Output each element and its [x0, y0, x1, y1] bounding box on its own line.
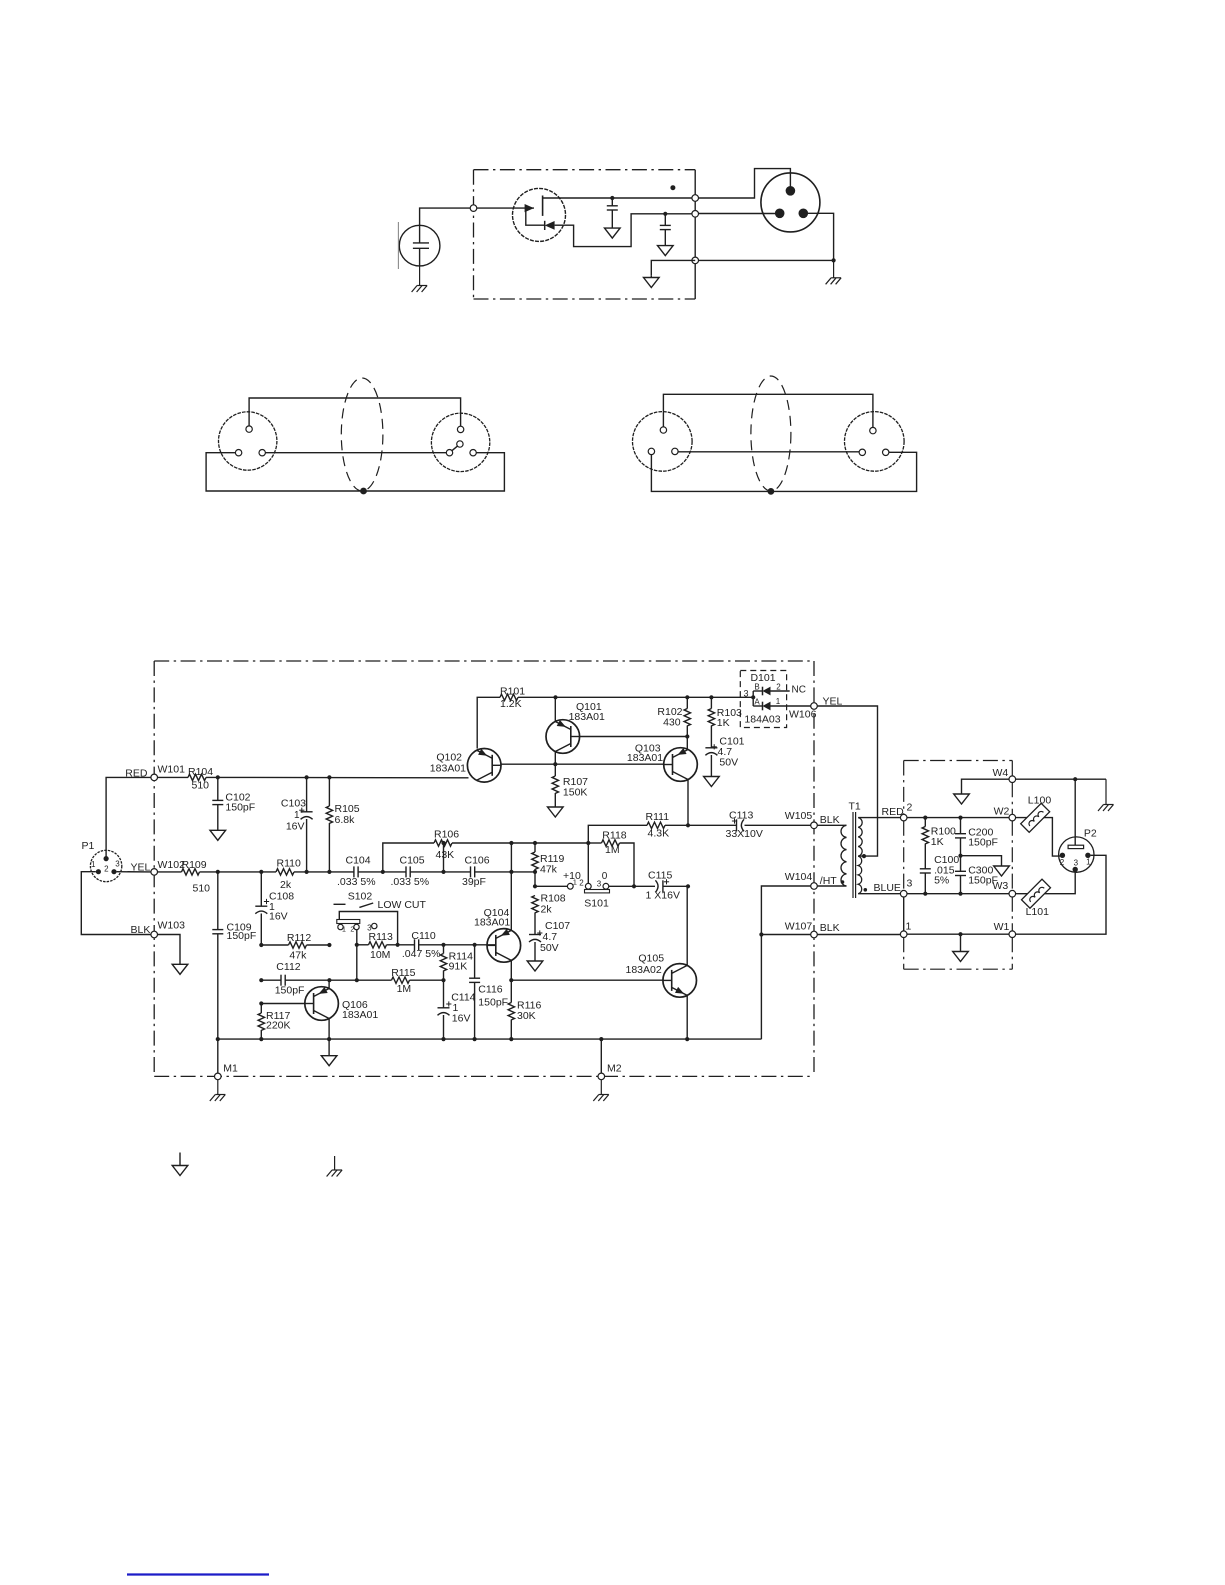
wire Q101 base to R102: [580, 734, 690, 738]
node W104: [785, 871, 838, 889]
resistor R111: [646, 811, 670, 840]
cable 2 connector B: [845, 412, 905, 472]
resistor R107: [552, 764, 588, 806]
inductor L100: [1021, 795, 1052, 833]
wire W2 row: [907, 816, 1009, 820]
svg-text:BLUE: BLUE: [874, 882, 901, 894]
svg-text:1: 1: [573, 878, 577, 887]
wire W4 right to chassis: [1015, 777, 1106, 781]
svg-text:1M: 1M: [605, 844, 620, 856]
wire Q101 collector: [554, 752, 556, 765]
inductor L101: [1022, 879, 1051, 918]
svg-text:91K: 91K: [449, 961, 468, 973]
ground (W103): [172, 964, 188, 974]
svg-text:1: 1: [342, 927, 346, 934]
svg-text:3: 3: [743, 689, 748, 699]
svg-text:184A03: 184A03: [744, 714, 780, 726]
wire W103 to ground: [157, 935, 180, 965]
wire Q104 emitter: [510, 872, 512, 931]
svg-text:2: 2: [1060, 858, 1065, 867]
svg-text:150K: 150K: [563, 787, 588, 799]
wire XLR pin2 to terminal1: [698, 169, 790, 198]
transistor Q102: [430, 749, 501, 783]
node W3: [993, 880, 1016, 897]
svg-text:1K: 1K: [931, 836, 944, 848]
svg-text:BLK: BLK: [131, 924, 151, 936]
cable 1 connector B: [431, 413, 489, 471]
ground (C200): [994, 866, 1010, 877]
dual diode D101: [740, 671, 811, 728]
node terminal 3: [900, 878, 912, 898]
bypass capacitor (source): [660, 214, 671, 230]
svg-text:W105: W105: [785, 810, 813, 822]
svg-text:BLK: BLK: [820, 922, 840, 934]
resistor R104: [188, 766, 213, 792]
capacitor C300: [955, 856, 998, 896]
cable 1 shield ellipse: [341, 378, 383, 494]
chassis ground (M1): [210, 1080, 226, 1102]
JFET impedance converter: [513, 188, 566, 241]
svg-text:10M: 10M: [370, 949, 390, 961]
resistor R116: [508, 980, 541, 1039]
wire YEL row (row1): [157, 870, 537, 874]
svg-text:220K: 220K: [266, 1020, 291, 1032]
capacitor C115: [646, 870, 680, 902]
resistor R105: [326, 777, 360, 872]
resistor R119: [532, 843, 565, 886]
svg-text:43K: 43K: [436, 849, 455, 861]
svg-text:R113: R113: [369, 931, 393, 943]
svg-text:39pF: 39pF: [462, 876, 486, 888]
svg-text:B: B: [754, 682, 759, 691]
wire R106 feedback row: [383, 841, 589, 872]
svg-text:50V: 50V: [540, 942, 559, 954]
svg-text:C105: C105: [400, 855, 425, 867]
svg-text:R112: R112: [287, 932, 311, 944]
svg-text:150pF: 150pF: [478, 996, 508, 1008]
svg-text:16V: 16V: [452, 1012, 471, 1024]
capacitor C110: [402, 930, 441, 960]
wire W105 to primary: [817, 824, 846, 826]
wire source jog: [563, 212, 696, 247]
wire P1 pin2 RED to W101: [106, 767, 151, 858]
svg-text:47k: 47k: [540, 864, 558, 876]
svg-text:16V: 16V: [286, 821, 305, 833]
svg-text:W2: W2: [994, 806, 1010, 818]
svg-text:183A01: 183A01: [569, 711, 605, 723]
svg-text:150pF: 150pF: [225, 801, 255, 813]
switch S101: [567, 871, 609, 910]
ground (C107): [527, 960, 543, 971]
capacitor C112: [275, 961, 305, 997]
svg-text:C116: C116: [478, 984, 502, 996]
svg-text:R106: R106: [434, 829, 459, 841]
ground (W4): [954, 794, 970, 805]
cable 2 shield loop: [651, 452, 916, 491]
connector P2: [1059, 828, 1097, 873]
node M2: [598, 1063, 622, 1080]
svg-text:2k: 2k: [280, 879, 292, 891]
ground (rail): [321, 1039, 337, 1066]
wire drain row: [543, 196, 696, 200]
svg-text:.047 5%: .047 5%: [402, 948, 441, 960]
stray dot: [670, 185, 675, 190]
wire Q105 collector: [686, 886, 688, 965]
capacitor C200: [955, 818, 998, 856]
svg-text:2: 2: [104, 865, 109, 874]
svg-text:16V: 16V: [269, 910, 288, 922]
wire W1 to P2 pin1: [1015, 855, 1106, 934]
node terminal 3: [692, 257, 699, 264]
svg-text:R101: R101: [500, 685, 525, 697]
svg-text:0: 0: [602, 871, 608, 882]
wire XLR pin1 to shield: [698, 213, 835, 262]
wire XLR pin3 to terminal2: [698, 213, 779, 215]
capacitor C108: [255, 872, 294, 945]
svg-text:W4: W4: [993, 767, 1009, 779]
resistor R103: [708, 697, 742, 748]
wire C200/C300 mid to ground: [958, 854, 1001, 866]
wire Q105 emitter: [685, 995, 689, 1041]
wire terminal3 ground row: [651, 260, 695, 275]
chassis ground (M2): [593, 1080, 609, 1102]
footer rule: [127, 1573, 269, 1575]
wire Q106 collector: [328, 1019, 330, 1040]
svg-text:W3: W3: [993, 880, 1009, 892]
svg-text:2: 2: [579, 878, 584, 887]
svg-text:1 X16V: 1 X16V: [646, 890, 680, 902]
wire R111 row: [588, 823, 811, 843]
svg-text:BLK: BLK: [820, 814, 840, 826]
cable 1 connector A: [219, 412, 277, 470]
capacitor C103: [281, 777, 313, 872]
svg-text:1M: 1M: [397, 983, 412, 995]
svg-text:NC: NC: [792, 685, 806, 696]
resistor R114: [440, 945, 473, 980]
wire W4 left to ground: [962, 779, 1010, 793]
wire Q106 base: [259, 1001, 305, 1005]
node W105: [785, 810, 840, 829]
node W102: [151, 859, 185, 875]
wire terminal3 to terminal1: [903, 897, 905, 931]
dash-dot enclosure (microphone body): [474, 170, 696, 299]
capacitor C106: [462, 855, 490, 888]
node W106: [789, 695, 843, 720]
transistor Q106: [305, 987, 379, 1021]
capacitor C107: [529, 920, 570, 960]
wire P2 top to W4: [1074, 779, 1076, 845]
wire M2 stem: [600, 1039, 602, 1073]
resistor R101: [500, 685, 525, 710]
wire M1 stem: [217, 1039, 219, 1073]
svg-text:3: 3: [1074, 859, 1079, 868]
cable 2 shield ellipse: [751, 376, 791, 495]
svg-text:C106: C106: [465, 855, 490, 867]
svg-text:1K: 1K: [717, 717, 730, 729]
capacitor C105: [391, 855, 430, 888]
resistor R118: [586, 830, 636, 889]
svg-text:W106: W106: [789, 708, 817, 720]
wire W104 to primary: [817, 885, 846, 887]
svg-text:50V: 50V: [719, 757, 738, 769]
svg-text:1: 1: [776, 697, 781, 706]
svg-text:.033 5%: .033 5%: [391, 876, 430, 888]
wire ground rail: [216, 1037, 762, 1041]
svg-text:M1: M1: [223, 1063, 238, 1075]
svg-text:30K: 30K: [517, 1010, 536, 1022]
ground (W1 row): [953, 934, 969, 961]
wire P1 pin1 BLK to W103: [81, 872, 151, 936]
wire R101 top row: [477, 695, 753, 748]
resistor R117: [258, 1004, 290, 1040]
resistor R110: [276, 858, 301, 892]
svg-text:2: 2: [776, 682, 781, 691]
svg-text:W101: W101: [158, 764, 186, 776]
svg-text:6.8k: 6.8k: [335, 814, 356, 826]
cable 1 shield loop: [206, 453, 504, 491]
svg-text:C115: C115: [648, 870, 672, 882]
bypass capacitor (drain): [607, 198, 618, 210]
legend chassis symbol: [327, 1156, 343, 1177]
wire Q103 collector to R111 node: [687, 780, 689, 826]
node terminal 2: [692, 211, 699, 218]
wire R113/C110 row: [357, 943, 496, 947]
wire Q106 emitter: [328, 980, 330, 988]
wire S101-3 to C115: [609, 884, 690, 888]
capacitor C114: [438, 980, 476, 1039]
cable 2 mid wire: [678, 451, 860, 453]
condenser capsule element: [398, 222, 440, 269]
svg-text:P1: P1: [82, 840, 95, 852]
svg-text:150pF: 150pF: [275, 985, 305, 997]
wire BLUE secondary to terminal 3: [858, 882, 901, 894]
node W2: [994, 806, 1016, 821]
svg-text:R115: R115: [391, 967, 415, 979]
wire BLK row to terminal 1: [817, 934, 900, 936]
svg-text:S101: S101: [584, 898, 609, 910]
svg-text:183A02: 183A02: [626, 964, 662, 976]
svg-text:.033 5%: .033 5%: [337, 876, 376, 888]
wire YEL to transformer tap: [817, 706, 877, 858]
transistor Q104: [474, 907, 521, 962]
wire capsule to gate: [420, 208, 534, 225]
resistor R109: [182, 859, 211, 895]
svg-text:2: 2: [350, 927, 354, 934]
svg-text:3: 3: [907, 878, 913, 890]
node (box input terminal): [470, 205, 477, 212]
node M1: [215, 1063, 239, 1080]
node W4: [993, 767, 1016, 783]
svg-text:1.2K: 1.2K: [500, 698, 522, 710]
output dash-dot box: [904, 761, 1013, 970]
wire base row Q102-Q103: [501, 762, 664, 766]
svg-text:1: 1: [91, 860, 96, 869]
ground (C102): [210, 805, 226, 841]
node terminal 2: [900, 802, 912, 821]
wire rail to W104/W107: [759, 886, 811, 1039]
wire W3 through L101 to P2 pin3: [1015, 872, 1075, 894]
svg-text:183A01: 183A01: [627, 752, 663, 764]
svg-text:C113: C113: [729, 810, 753, 822]
XLR male connector: [761, 173, 820, 232]
cable 1 hot wire: [249, 398, 461, 427]
wire Q105 base row: [511, 979, 663, 981]
svg-text:P2: P2: [1084, 828, 1097, 840]
svg-text:L100: L100: [1028, 795, 1052, 807]
cable 1 mid wire: [265, 452, 447, 454]
main dash-dot enclosure: [154, 661, 814, 1076]
svg-text:183A01: 183A01: [474, 917, 510, 929]
svg-text:150pF: 150pF: [227, 930, 257, 942]
resistor R102: [657, 697, 690, 736]
svg-text:Q105: Q105: [638, 953, 664, 965]
svg-text:/HT: /HT: [820, 875, 838, 887]
node W101: [151, 764, 185, 781]
resistor R108: [532, 893, 566, 935]
chassis ground (W4): [1098, 779, 1114, 811]
svg-text:M2: M2: [607, 1063, 622, 1075]
svg-text:YEL: YEL: [131, 861, 151, 873]
svg-text:RED: RED: [125, 767, 148, 779]
svg-text:2k: 2k: [541, 904, 553, 916]
svg-text:510: 510: [193, 883, 211, 895]
wire +10 to S101: [533, 870, 581, 888]
svg-text:1: 1: [294, 810, 300, 821]
svg-text:C104: C104: [346, 855, 371, 867]
wire R112 row: [259, 943, 331, 947]
capacitor C109: [212, 872, 256, 1039]
svg-text:C110: C110: [411, 930, 435, 942]
transformer T1: [841, 801, 867, 899]
svg-text:1: 1: [906, 921, 912, 933]
svg-text:W104: W104: [785, 871, 813, 883]
switch S102: [334, 891, 427, 945]
svg-text:S102: S102: [348, 891, 373, 903]
legend ground symbol: [172, 1153, 188, 1176]
capacitor C113: [726, 810, 763, 841]
svg-text:R104: R104: [188, 766, 213, 778]
svg-text:R109: R109: [182, 859, 207, 871]
svg-text:W107: W107: [785, 921, 813, 933]
capacitor C101: [705, 736, 744, 777]
svg-text:C103: C103: [281, 798, 306, 810]
wire Q103 emitter: [686, 737, 688, 750]
wire S102-2 down: [355, 930, 359, 983]
svg-text:R118: R118: [602, 830, 626, 842]
ground (source cap): [658, 230, 674, 256]
node terminal 1: [900, 921, 911, 938]
wire C112/R115 row: [259, 978, 445, 982]
svg-text:LOW CUT: LOW CUT: [378, 899, 427, 911]
svg-text:430: 430: [663, 717, 681, 729]
transistor Q103: [627, 743, 697, 782]
wire W1 row: [907, 932, 1009, 936]
capacitor C116: [469, 945, 508, 1039]
node W1: [994, 921, 1016, 938]
wire RED row (row0): [157, 775, 468, 779]
wire W3 row: [907, 893, 1009, 895]
ground (terminal 3): [644, 275, 660, 287]
resistor R100 + capacitor C100: [920, 818, 960, 896]
wire RED secondary to terminal 2: [858, 806, 904, 818]
svg-text:A: A: [754, 698, 760, 707]
node W103: [151, 919, 185, 938]
svg-text:510: 510: [192, 780, 210, 792]
resistor R115: [391, 967, 415, 995]
capacitor C102: [212, 777, 255, 813]
cable 2 hot wire: [663, 394, 873, 427]
svg-text:5%: 5%: [934, 875, 949, 887]
svg-text:47k: 47k: [289, 950, 307, 962]
wire Q101 emitter: [554, 697, 556, 721]
resistor R113: [369, 931, 393, 961]
svg-text:C112: C112: [276, 961, 300, 973]
svg-text:4.3K: 4.3K: [648, 828, 670, 840]
capsule chassis ground: [412, 266, 428, 292]
wire P1 pin3 YEL to W102: [117, 861, 151, 873]
svg-text:183A01: 183A01: [430, 763, 466, 775]
svg-text:W1: W1: [994, 921, 1010, 933]
svg-text:33X10V: 33X10V: [726, 828, 763, 840]
ground (drain cap): [605, 210, 621, 238]
svg-text:W103: W103: [158, 919, 186, 931]
chassis ground (XLR): [826, 260, 842, 284]
svg-text:183A01: 183A01: [342, 1009, 378, 1021]
capacitor C104: [337, 855, 376, 888]
cable 2 connector A: [633, 412, 693, 472]
node terminal 1: [692, 195, 699, 202]
resistor R112: [287, 932, 311, 962]
svg-text:L101: L101: [1026, 906, 1050, 918]
svg-text:R111: R111: [646, 811, 670, 823]
ground (C101): [704, 776, 720, 787]
connector P1: [82, 840, 122, 882]
resistor R106: [434, 829, 459, 862]
transistor Q101: [546, 701, 605, 753]
svg-text:3: 3: [115, 860, 120, 869]
svg-text:T1: T1: [849, 801, 861, 813]
wire Q104 collector: [509, 960, 513, 982]
svg-text:150pF: 150pF: [968, 837, 998, 849]
wire W2 through L100 to P2 pin2: [1015, 818, 1060, 857]
wire R111 node to S101-2: [587, 843, 589, 883]
ground (R107): [548, 807, 564, 818]
node W107: [785, 921, 840, 938]
transistor Q105: [626, 953, 697, 998]
svg-text:1: 1: [1086, 858, 1091, 867]
svg-text:R110: R110: [277, 858, 301, 870]
svg-text:2: 2: [907, 802, 913, 814]
